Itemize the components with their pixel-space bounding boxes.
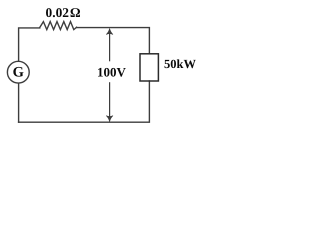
arrowhead down (at bottom wire)	[106, 116, 113, 122]
arrowhead up (at top wire)	[106, 29, 113, 35]
load box 50kW	[140, 54, 158, 81]
svg-text:50kW: 50kW	[164, 57, 196, 71]
arrow shaft upper segment	[109, 30, 111, 61]
generator G circle	[7, 61, 29, 83]
resistor R (zigzag)	[40, 22, 77, 30]
wire left-bottom segment	[18, 83, 20, 122]
svg-text:0.02Ω: 0.02Ω	[46, 5, 81, 20]
wire right-bottom segment	[19, 81, 150, 122]
svg-text:100V: 100V	[97, 64, 127, 79]
voltage arrow 100V (double-headed)	[106, 29, 113, 122]
arrow shaft lower segment	[109, 82, 111, 120]
wire top-right segment	[77, 28, 150, 54]
svg-text:G: G	[13, 65, 24, 81]
wire top-left segment	[19, 28, 40, 61]
